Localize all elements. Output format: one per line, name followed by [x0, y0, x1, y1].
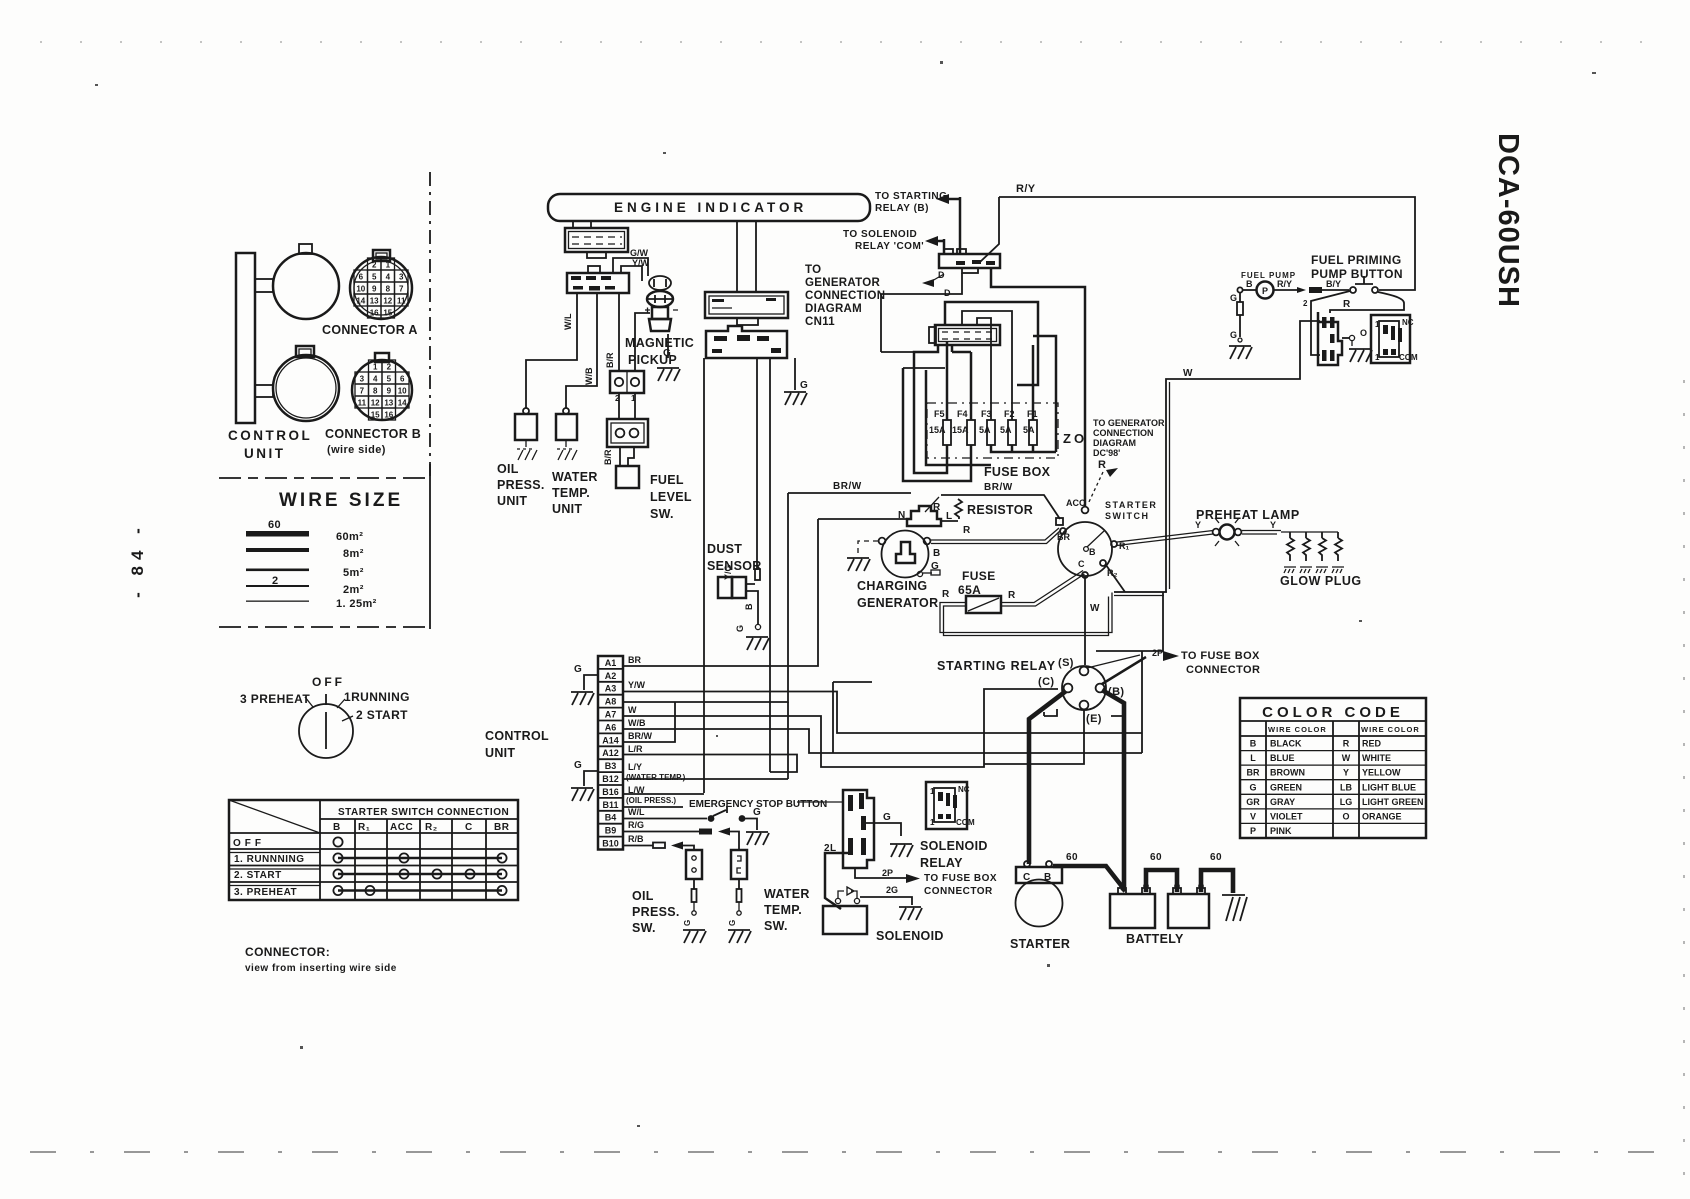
svg-text:CHARGING: CHARGING: [857, 579, 927, 593]
wire R/Y long run: [999, 197, 1415, 290]
panel divider dashed line: [429, 172, 431, 478]
svg-text:UNIT: UNIT: [485, 746, 515, 760]
svg-text:Y: Y: [1270, 520, 1276, 530]
label CHARGING GENERATOR: [857, 579, 938, 610]
wire BR/W to starter switch ACC side: [941, 495, 1060, 519]
wire emergency stop to solenoid relay: [797, 801, 843, 803]
wire R/G from B9: [623, 820, 739, 850]
svg-text:3. PREHEAT: 3. PREHEAT: [234, 887, 297, 898]
svg-text:R/G: R/G: [628, 820, 644, 830]
svg-text:GREEN: GREEN: [1270, 782, 1302, 792]
page border dots top: [40, 41, 1650, 43]
svg-text:G: G: [728, 920, 737, 926]
svg-text:GRAY: GRAY: [1270, 797, 1295, 807]
wire R from generator to BR terminal: [931, 528, 1061, 544]
svg-text:RELAY: RELAY: [920, 856, 963, 870]
svg-text:TO: TO: [805, 264, 821, 276]
svg-text:D: D: [944, 288, 951, 298]
svg-text:FUEL: FUEL: [650, 473, 684, 487]
svg-text:W: W: [1183, 368, 1193, 379]
svg-text:Y/W: Y/W: [632, 258, 650, 268]
svg-text:12: 12: [371, 399, 380, 408]
svg-text:W/L: W/L: [563, 313, 573, 330]
svg-text:RED: RED: [1362, 739, 1382, 749]
svg-text:G: G: [683, 920, 692, 926]
svg-text:(C): (C): [1038, 676, 1054, 688]
thick wire B to battery: [1102, 690, 1124, 891]
svg-text:BR: BR: [1247, 768, 1260, 778]
label 2G + wire to ground: [860, 885, 922, 920]
svg-text:R: R: [942, 589, 950, 600]
svg-text:B/R: B/R: [603, 449, 613, 465]
ground under CN11 right: [784, 358, 808, 405]
svg-text:SOLENOID: SOLENOID: [920, 839, 988, 853]
svg-text:7: 7: [399, 285, 404, 294]
thick wire battery2 to ground: [1201, 870, 1233, 893]
svg-text:3: 3: [360, 375, 365, 384]
svg-text:9: 9: [387, 387, 392, 396]
svg-text:GENERATOR: GENERATOR: [805, 277, 881, 289]
wire button right contact loop to connector: [1330, 292, 1404, 313]
wire size legend bars: [246, 519, 309, 602]
svg-text:WHITE: WHITE: [1362, 753, 1391, 763]
svg-text:FUEL PRIMING: FUEL PRIMING: [1311, 253, 1402, 267]
connector A grid circle: [350, 250, 412, 319]
wire W from switch B to starting relay S: [1084, 576, 1086, 665]
svg-text:B: B: [1246, 279, 1253, 289]
svg-text:A1: A1: [605, 658, 617, 668]
svg-text:C: C: [465, 822, 473, 833]
label R with arrow to ACC: [1088, 459, 1118, 504]
fuse box wire loop inner small: [977, 318, 991, 420]
wire size labels: [336, 531, 377, 610]
svg-text:GLOW PLUG: GLOW PLUG: [1280, 574, 1362, 588]
fuse bottom bus: [991, 445, 1056, 452]
BR square terminal: [1056, 518, 1063, 525]
fuse row dashed border: [927, 403, 1058, 458]
svg-text:B: B: [1250, 739, 1257, 749]
svg-text:2P: 2P: [1152, 648, 1163, 658]
svg-text:W: W: [1090, 603, 1100, 614]
svg-text:5A: 5A: [1000, 425, 1012, 435]
table row labels: [233, 838, 305, 898]
thick wire C to starter: [1029, 691, 1066, 864]
svg-text:P: P: [1262, 286, 1268, 296]
svg-text:LIGHT BLUE: LIGHT BLUE: [1362, 782, 1416, 792]
svg-text:WIRE COLOR: WIRE COLOR: [1361, 725, 1420, 734]
svg-text:G: G: [931, 561, 939, 572]
svg-text:NC: NC: [958, 785, 970, 794]
svg-text:2: 2: [387, 363, 392, 372]
label WATER TEMP. SW.: [764, 887, 810, 933]
svg-text:CONNECTOR B: CONNECTOR B: [325, 427, 421, 441]
svg-text:B9: B9: [605, 826, 617, 836]
CN11 connector upper: [705, 292, 788, 325]
svg-text:YELLOW: YELLOW: [1362, 768, 1401, 778]
fuse box mid loop: [926, 370, 991, 465]
svg-text:8m²: 8m²: [343, 548, 364, 560]
svg-text:L: L: [1250, 753, 1256, 763]
glow plugs: [1284, 532, 1344, 573]
page border dashes right: [1683, 380, 1685, 1190]
svg-text:14: 14: [356, 297, 365, 306]
wire E down: [984, 709, 1084, 764]
svg-text:TO GENERATOR: TO GENERATOR: [1093, 418, 1165, 428]
svg-text:1: 1: [373, 363, 378, 372]
svg-text:WATER: WATER: [764, 887, 810, 901]
wire 2P to fuse box connector: [855, 868, 997, 897]
svg-text:F4: F4: [957, 409, 968, 419]
svg-text:(wire side): (wire side): [327, 444, 386, 456]
svg-text:10: 10: [398, 387, 407, 396]
svg-text:R: R: [1343, 739, 1350, 749]
inline fuse: [1309, 287, 1322, 293]
svg-text:O: O: [1342, 811, 1349, 821]
ground water temp unit: [557, 440, 577, 460]
wires terminal block to fuel block: [619, 393, 635, 419]
svg-text:60: 60: [1210, 852, 1222, 863]
svg-text:ORANGE: ORANGE: [1362, 811, 1402, 821]
label CONTROL UNIT (left): [228, 428, 312, 461]
svg-text:view from inserting wire side: view from inserting wire side: [245, 963, 397, 974]
svg-text:TO FUSE BOX: TO FUSE BOX: [1181, 650, 1260, 662]
svg-text:B16: B16: [602, 787, 619, 797]
svg-text:LIGHT GREEN: LIGHT GREEN: [1362, 797, 1424, 807]
battery 2: [1168, 884, 1209, 928]
svg-text:5: 5: [387, 375, 392, 384]
label TO SOLENOID RELAY 'COM': [843, 229, 924, 252]
svg-text:W: W: [628, 705, 637, 715]
svg-text:TEMP.: TEMP.: [764, 903, 802, 917]
wire lamp to glow plug bus: [1242, 531, 1338, 535]
fuse F4: [952, 409, 975, 445]
wire pump to fuse: [1274, 287, 1306, 293]
svg-text:B: B: [933, 548, 941, 559]
svg-text:COM: COM: [1399, 353, 1418, 362]
priming connector: [1318, 312, 1342, 365]
page border dashes bottom: [30, 1151, 1660, 1153]
engine indicator box: [548, 194, 870, 221]
svg-text:6: 6: [400, 375, 405, 384]
long vertical wire from CN11 pin x704: [703, 358, 705, 793]
svg-text:B10: B10: [602, 839, 619, 849]
fuel priming pump button contacts: [1350, 276, 1378, 293]
wire BR from A1: [623, 519, 818, 666]
svg-text:2P: 2P: [882, 868, 893, 878]
svg-text:SENSOR: SENSOR: [707, 559, 762, 573]
svg-text:(E): (E): [1086, 713, 1102, 725]
svg-text:15: 15: [371, 411, 380, 420]
wire G/W to magnetic pickup: [613, 258, 648, 276]
svg-text:G: G: [1230, 293, 1237, 303]
arrow 2P: [1163, 651, 1179, 661]
svg-text:BLUE: BLUE: [1270, 753, 1295, 763]
svg-text:GR: GR: [1246, 797, 1260, 807]
dust sensor drop wire x757: [756, 358, 758, 570]
svg-text:R: R: [1098, 459, 1106, 471]
svg-text:Y: Y: [1195, 520, 1201, 530]
svg-text:PRESS.: PRESS.: [497, 478, 545, 492]
connector B plain circle: [273, 346, 339, 421]
fuse box left loop stub: [881, 352, 945, 368]
wire R2 to fuse65 loop: [1106, 565, 1125, 592]
svg-text:8: 8: [386, 285, 391, 294]
wire from connector centre down-left: [881, 273, 962, 352]
svg-text:B4: B4: [605, 813, 617, 823]
control unit pin table: [598, 656, 623, 850]
svg-text:PUMP BUTTON: PUMP BUTTON: [1311, 267, 1403, 281]
svg-text:1: 1: [1375, 353, 1380, 362]
resistor zigzag: [941, 499, 962, 521]
solenoid relay connector: [843, 790, 874, 868]
thin wire S to 2P arrow: [1087, 655, 1140, 668]
svg-text:R/Y: R/Y: [1016, 183, 1036, 195]
svg-text:LG: LG: [1340, 797, 1353, 807]
svg-text:BR/W: BR/W: [628, 731, 652, 741]
wire from B11 to emergency stop: [623, 806, 683, 808]
fuse 65A body: [966, 596, 1001, 613]
svg-text:R₂: R₂: [425, 822, 438, 833]
svg-text:5: 5: [372, 273, 377, 282]
oil press switch: [683, 850, 706, 943]
arrow to starting relay: [936, 194, 960, 204]
svg-text:P: P: [1250, 826, 1256, 836]
svg-text:A2: A2: [605, 671, 617, 681]
vertical pair from engine indicator: [737, 221, 756, 292]
wire size box border: [219, 464, 430, 629]
svg-text:STARTER: STARTER: [1105, 500, 1157, 510]
svg-text:PRESS.: PRESS.: [632, 905, 680, 919]
svg-text:5m²: 5m²: [343, 567, 364, 579]
svg-text:VIOLET: VIOLET: [1270, 811, 1303, 821]
CN11 connector lower: [706, 326, 787, 358]
svg-text:A6: A6: [605, 722, 617, 732]
thick wire 2L to solenoid: [825, 853, 848, 909]
svg-text:L/R: L/R: [628, 744, 643, 754]
starter switch knob labels: [240, 675, 410, 722]
svg-text:DIAGRAM: DIAGRAM: [1093, 438, 1136, 448]
svg-text:15: 15: [383, 309, 392, 318]
wire R/B from B10: [623, 834, 694, 851]
svg-text:CONNECTOR: CONNECTOR: [1186, 664, 1260, 676]
svg-text:CONNECTOR A: CONNECTOR A: [322, 323, 418, 337]
label G + ground dust sensor: [735, 625, 769, 650]
svg-text:F1: F1: [1027, 409, 1038, 419]
wire L/R from A12: [623, 744, 797, 772]
svg-text:60: 60: [268, 519, 281, 531]
svg-text:Y: Y: [1343, 768, 1349, 778]
svg-text:60: 60: [1066, 852, 1078, 863]
svg-text:1: 1: [386, 261, 391, 270]
svg-text:G: G: [574, 760, 582, 771]
ground G lower (pin table): [571, 760, 598, 801]
svg-text:ACC: ACC: [1066, 498, 1086, 508]
svg-text:N: N: [898, 510, 906, 521]
fuse box connector: [929, 325, 1000, 345]
svg-text:R₁: R₁: [1119, 541, 1129, 551]
svg-text:3 PREHEAT: 3 PREHEAT: [240, 692, 310, 706]
svg-text:11: 11: [397, 297, 406, 306]
svg-text:RELAY (B): RELAY (B): [875, 203, 929, 214]
svg-text:B11: B11: [602, 800, 618, 810]
W wire from connector to fuse65 loop: [1114, 321, 1320, 592]
svg-text:UNIT: UNIT: [552, 502, 582, 516]
svg-text:LB: LB: [1340, 782, 1352, 792]
ground oil press unit: [517, 440, 537, 460]
svg-text:G: G: [753, 807, 761, 818]
fuel cut relay block: [907, 497, 941, 526]
wire L/W OIL PRESS from B16: [623, 785, 704, 805]
water temp unit: [556, 408, 577, 440]
label TO GENERATOR CONNECTION DIAGRAM CN11: [805, 264, 885, 328]
thick wire starter B to battery 1: [1053, 866, 1124, 889]
svg-text:ACC: ACC: [390, 822, 413, 833]
fuse F3: [979, 409, 995, 445]
svg-text:G: G: [574, 664, 582, 675]
svg-text:ENGINE INDICATOR: ENGINE INDICATOR: [614, 200, 807, 215]
svg-text:G: G: [883, 812, 891, 823]
svg-text:BR/W: BR/W: [984, 482, 1013, 493]
wire B/R from connector to terminal block: [618, 293, 620, 371]
svg-text:G: G: [1230, 330, 1237, 340]
svg-text:SW.: SW.: [650, 507, 674, 521]
svg-text:B/R: B/R: [605, 352, 615, 368]
svg-text:LEVEL: LEVEL: [650, 490, 692, 504]
connector B pin grid: [355, 360, 409, 420]
wire Y/W to magnetic pickup: [621, 266, 642, 281]
svg-text:WATER: WATER: [552, 470, 598, 484]
svg-text:DUST: DUST: [707, 542, 742, 556]
svg-text:2m²: 2m²: [343, 584, 364, 596]
priming mate connector: [1371, 315, 1418, 363]
svg-text:A14: A14: [602, 735, 619, 745]
svg-text:B: B: [1044, 872, 1052, 883]
svg-text:F2: F2: [1004, 409, 1015, 419]
fuse box F5 feed: [946, 341, 949, 420]
svg-text:CONNECTION: CONNECTION: [1093, 428, 1154, 438]
control unit tab to connector A: [255, 279, 273, 292]
svg-text:BR/W: BR/W: [833, 481, 862, 492]
engine indicator connector (lower): [567, 266, 629, 293]
svg-text:DCA-60USH: DCA-60USH: [1492, 133, 1524, 308]
svg-text:8: 8: [373, 387, 378, 396]
label OIL PRESS. UNIT: [497, 462, 545, 508]
label DUST SENSOR: [707, 542, 762, 573]
svg-text:FUSE BOX: FUSE BOX: [984, 465, 1051, 479]
wire from magnetic pickup to terminal block: [635, 313, 650, 371]
wire N from A1/BR riser: [818, 518, 911, 520]
svg-text:B12: B12: [602, 774, 619, 784]
fuel pump circle P: [1237, 282, 1273, 299]
wire from arrow down to connector: [959, 197, 962, 254]
svg-text:CONTROL: CONTROL: [485, 729, 549, 743]
svg-text:4: 4: [386, 273, 391, 282]
connector B grid circle: [352, 353, 412, 420]
svg-text:16: 16: [384, 411, 393, 420]
color code table: [1240, 698, 1426, 838]
oil press unit: [515, 408, 537, 440]
wire W/B from connector to water temp unit: [566, 293, 597, 408]
svg-text:A7: A7: [605, 710, 617, 720]
svg-text:W: W: [1342, 753, 1351, 763]
svg-text:10: 10: [356, 285, 365, 294]
svg-text:RESISTOR: RESISTOR: [967, 503, 1033, 517]
svg-text:16: 16: [370, 309, 379, 318]
svg-text:L/Y: L/Y: [628, 762, 642, 772]
fuel pump ground chain: [1229, 293, 1252, 359]
svg-text:7: 7: [360, 387, 365, 396]
svg-text:BR: BR: [628, 655, 641, 665]
svg-text:5A: 5A: [979, 425, 991, 435]
leads from engine indicator to connector: [573, 221, 591, 228]
wire BR/W from A8 riser: [788, 492, 911, 494]
svg-text:BR: BR: [1057, 532, 1070, 542]
svg-text:STARTING RELAY: STARTING RELAY: [937, 659, 1056, 673]
label FUEL PRIMING PUMP BUTTON: [1311, 253, 1403, 281]
svg-text:2G: 2G: [886, 885, 898, 895]
svg-text:SW.: SW.: [764, 919, 788, 933]
svg-text:GENERATOR: GENERATOR: [857, 596, 938, 610]
starting/solenoid feed connector: [939, 249, 1000, 273]
svg-text:4: 4: [373, 375, 378, 384]
svg-text:1. RUNNNING: 1. RUNNNING: [234, 854, 305, 865]
svg-text:R₁: R₁: [358, 822, 370, 833]
heavy wire connector to ACC drop: [991, 268, 1085, 507]
fuse box wire loop top outer: [945, 302, 1038, 385]
fuse box left loop 2: [903, 368, 971, 481]
svg-text:R: R: [963, 525, 971, 536]
fuse box wire F1 feed: [1033, 336, 1056, 452]
svg-text:OIL: OIL: [497, 462, 519, 476]
svg-text:60m²: 60m²: [336, 531, 363, 543]
svg-text:CN11: CN11: [805, 316, 835, 328]
svg-text:UNIT: UNIT: [244, 446, 286, 461]
svg-text:A8: A8: [605, 697, 617, 707]
svg-text:BROWN: BROWN: [1270, 768, 1305, 778]
control unit tab to connector B: [255, 385, 273, 397]
svg-text:PREHEAT LAMP: PREHEAT LAMP: [1196, 508, 1300, 522]
svg-text:C: C: [1023, 872, 1031, 883]
magnetic pickup coil: [645, 276, 678, 331]
ground G upper (pin table): [571, 664, 598, 705]
fuel level switch body: [616, 466, 639, 488]
water temp switch: [728, 850, 751, 943]
svg-text:CONNECTION: CONNECTION: [805, 290, 885, 302]
svg-text:G/W: G/W: [630, 248, 649, 258]
svg-text:1: 1: [1375, 320, 1380, 329]
svg-text:- 84 -: - 84 -: [128, 522, 147, 598]
svg-text:OIL: OIL: [632, 889, 654, 903]
svg-text:6: 6: [359, 273, 364, 282]
svg-text:OFF: OFF: [312, 675, 345, 689]
svg-text:R: R: [933, 502, 941, 513]
svg-text:1RUNNING: 1RUNNING: [344, 690, 410, 704]
svg-text:(WATER TEMP.): (WATER TEMP.): [626, 773, 686, 782]
svg-text:2 START: 2 START: [356, 708, 408, 722]
long vertical wire from CN11 pin x770: [769, 358, 771, 772]
thick wire B to 2P arrow: [1102, 657, 1146, 684]
svg-text:WIRE SIZE: WIRE SIZE: [279, 490, 403, 511]
wire R/Y drop to connector: [980, 197, 999, 262]
svg-text:13: 13: [370, 297, 379, 306]
solenoid relay mate connector icon: [926, 782, 975, 829]
svg-text:11: 11: [358, 399, 367, 408]
wire from A8 up to BR/W: [623, 493, 788, 702]
thick bridge battery1-battery2: [1146, 870, 1177, 892]
solenoid body: [823, 906, 867, 934]
starter body: [1016, 861, 1063, 927]
svg-text:TO STARTING: TO STARTING: [875, 191, 947, 202]
